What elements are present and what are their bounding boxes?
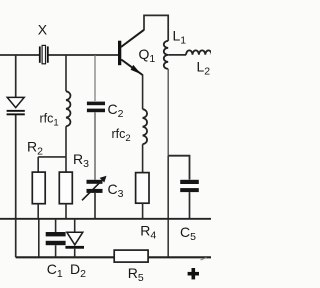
svg-text:X: X: [38, 22, 48, 38]
inductor rfc2: [143, 109, 147, 144]
inductor rfc1: [66, 91, 70, 126]
wire left below-rail drop: [15, 219, 17, 257]
capacitor C2: [87, 102, 105, 113]
capacitor C5: [180, 180, 199, 192]
inductor L1: [164, 41, 168, 69]
wire emitter to rfc2: [142, 75, 144, 110]
wire D2 bottom lead: [74, 249, 76, 258]
wire C5 branch: [168, 156, 189, 180]
wire rfc2 to R4: [142, 144, 144, 172]
wire R2 bottom lead: [37, 204, 39, 219]
wire rfc1 branch top: [65, 55, 67, 91]
ground rail (horizontal bus): [0, 218, 211, 220]
diode D2: [65, 232, 84, 249]
varactor diode D1: [7, 97, 25, 115]
wire collector top: [144, 15, 168, 41]
wire bus scan mark: [201, 258, 207, 260]
resistor R4: [136, 173, 149, 204]
wire L1 tap to L2: [168, 54, 186, 56]
wire left vertical: [15, 55, 17, 219]
wire node to bus: [167, 156, 169, 258]
wire C2 top lead: [94, 55, 96, 101]
wire D2 top lead: [74, 219, 76, 232]
wire R3 top lead: [65, 157, 67, 172]
wire R2 top lead: [37, 157, 39, 172]
wire C1 bottom lead: [55, 245, 57, 257]
wire R2-R3 connector: [38, 156, 66, 158]
wire C3 bottom lead: [94, 193, 96, 219]
wire rfc1 to node: [65, 126, 67, 157]
trimmer capacitor C3: [82, 176, 107, 201]
wire R4 bottom lead: [142, 203, 144, 219]
plus terminal: [188, 268, 199, 279]
transistor Q1: [118, 30, 144, 75]
wire C2-C3 lead: [94, 112, 96, 180]
bottom supply bus: [16, 256, 211, 258]
wire L1 bottom long vertical: [167, 69, 169, 156]
wire C5 bottom lead: [189, 192, 191, 219]
inductor L2: [186, 50, 212, 54]
wire R3 bottom lead: [65, 204, 67, 219]
wire top rail left (base wire): [0, 54, 118, 56]
crystal X: [39, 45, 49, 63]
capacitor C1: [46, 232, 66, 245]
resistor R3: [59, 172, 72, 204]
wire R2 below-rail drop: [38, 219, 40, 257]
resistor R2: [32, 172, 45, 204]
wire C1 top lead: [55, 219, 57, 232]
resistor R5: [114, 250, 148, 262]
